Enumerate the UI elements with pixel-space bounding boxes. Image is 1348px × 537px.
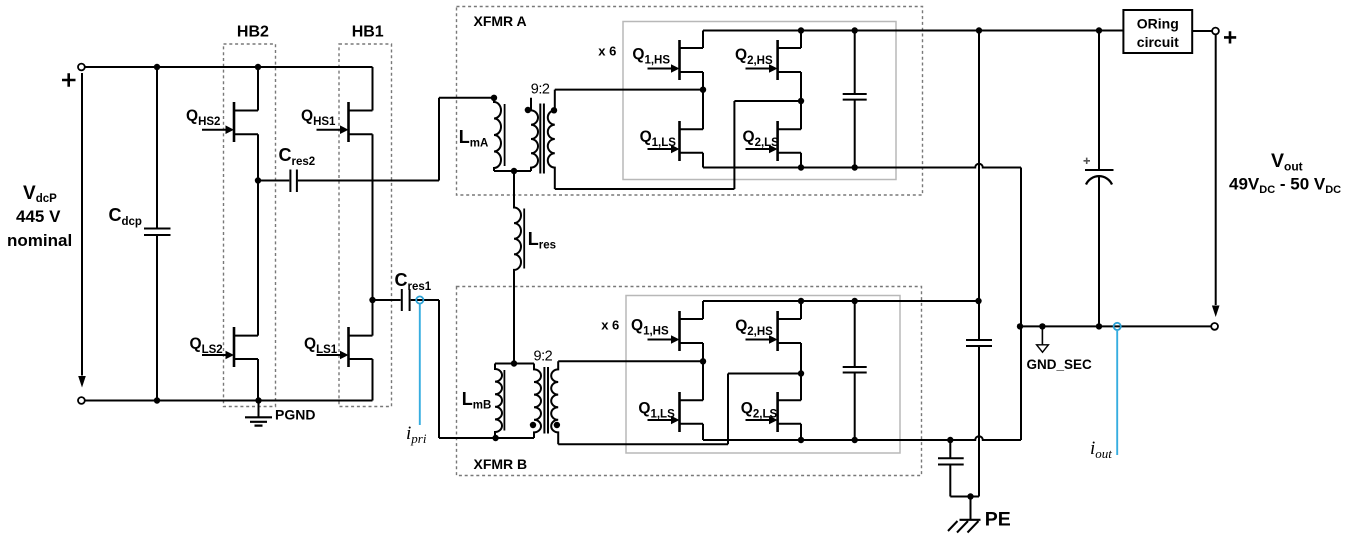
- capacitor XFMR B output: [843, 301, 867, 440]
- svg-text:GND_SEC: GND_SEC: [1027, 357, 1093, 372]
- node HB2 midpoint: [255, 177, 261, 183]
- transistor Q2,HS (XFMR A): [746, 40, 802, 80]
- current probe iout circle: [1114, 323, 1121, 330]
- transistor Q2,HS (XFMR B): [746, 311, 802, 351]
- wire Q2,HS drain (A): [800, 31, 802, 49]
- capacitor Cres2: [258, 170, 439, 193]
- wire Q2 midpoint (B): [800, 343, 802, 400]
- node Q2,LS source rail (B): [798, 437, 804, 443]
- wire XFMR B secondary top to Q1 midpoint: [558, 360, 703, 362]
- wire PE cap bottom link: [950, 496, 979, 498]
- svg-text:VdcP: VdcP: [23, 183, 57, 205]
- XFMR B secondary polarity dot: [554, 422, 560, 428]
- svg-text:9:2: 9:2: [531, 81, 550, 97]
- svg-text:49VDC - 50 VDC: 49VDC - 50 VDC: [1229, 175, 1341, 197]
- input voltage arrow line: [81, 73, 83, 376]
- wire HB1 midpoint: [372, 134, 374, 335]
- label plus input: [62, 73, 76, 87]
- wire ORing output: [1192, 30, 1212, 32]
- transistor QHS1: [317, 102, 373, 142]
- svg-text:445 V: 445 V: [16, 207, 61, 226]
- wire Q1,HS drain (A): [702, 31, 704, 49]
- node Q2,LS source rail (A): [798, 164, 804, 170]
- wire top input rail: [85, 66, 373, 68]
- wire Q1,LS source (A): [702, 153, 704, 168]
- node PE earth junction: [967, 493, 973, 499]
- XFMR B dashed box: [457, 287, 922, 476]
- wire XFMR B output return rail with crossover hop: [703, 436, 1021, 440]
- transistor Q1,HS (XFMR B): [648, 311, 704, 351]
- node HB1 midpoint: [369, 297, 375, 303]
- wire XFMR A secondary bottom to Q2 midpoint: [555, 101, 801, 189]
- svg-text:Cdcp: Cdcp: [109, 205, 142, 228]
- svg-text:ipri: ipri: [406, 423, 427, 446]
- svg-text:LmB: LmB: [462, 389, 492, 412]
- svg-text:Cres1: Cres1: [395, 270, 432, 293]
- ground PE earth symbol: [948, 497, 981, 533]
- svg-text:XFMR A: XFMR A: [474, 13, 527, 29]
- XFMR B inner paralleling box: [626, 296, 900, 454]
- transformer XFMR A secondary winding: [548, 90, 555, 189]
- node Q2,HS drain (A): [798, 27, 804, 33]
- ground GND_SEC arrow: [1037, 326, 1049, 352]
- svg-text:Q2,HS: Q2,HS: [735, 318, 773, 339]
- svg-text:QLS1: QLS1: [304, 336, 338, 357]
- wire Cres2 to XFMR A: [439, 98, 494, 181]
- svg-text:x 6: x 6: [601, 318, 619, 333]
- wire gnd bus vertical: [1020, 168, 1022, 441]
- svg-text:PE: PE: [985, 509, 1011, 531]
- wire Q1 midpoint (B): [702, 343, 704, 400]
- svg-text:Q1,HS: Q1,HS: [631, 317, 669, 338]
- svg-text:x 6: x 6: [598, 44, 616, 59]
- svg-text:LmA: LmA: [459, 127, 489, 150]
- node PGND junction: [255, 397, 261, 403]
- XFMR A primary polarity dot: [525, 107, 531, 113]
- output voltage arrowhead: [1212, 306, 1220, 318]
- node LmB top junction: [511, 360, 517, 366]
- node cap A bottom: [852, 164, 858, 170]
- wire Q2 midpoint (A): [800, 72, 802, 129]
- svg-text:HB2: HB2: [237, 23, 269, 40]
- node out cap top: [1096, 27, 1102, 33]
- terminal circle input bottom: [78, 397, 85, 404]
- input voltage arrowhead: [78, 376, 86, 388]
- svg-text:Q1,LS: Q1,LS: [640, 129, 677, 150]
- wire output ground rail: [1020, 325, 1211, 327]
- transistor QHS2: [202, 102, 258, 142]
- node gnd bus output rail: [1017, 323, 1023, 329]
- inductor LmA: [494, 98, 505, 171]
- node plus bus top rail: [976, 27, 982, 33]
- svg-text:Q2,LS: Q2,LS: [743, 129, 780, 150]
- svg-text:XFMR B: XFMR B: [474, 456, 528, 472]
- node PE cap top: [947, 437, 953, 443]
- XFMR A dashed box: [457, 7, 923, 196]
- svg-text:9:2: 9:2: [534, 348, 553, 364]
- capacitor Cres1: [373, 289, 440, 311]
- XFMR B primary polarity dot: [530, 422, 536, 428]
- XFMR A core: [540, 104, 544, 174]
- node Lres tap: [511, 168, 517, 174]
- node Cdcp bottom: [154, 397, 160, 403]
- ground PGND: [245, 401, 272, 426]
- current probe ipri line: [419, 304, 421, 425]
- wire Q1,HS drain (B): [702, 301, 704, 319]
- label plus out cap: [1084, 158, 1091, 164]
- wire XFMR B secondary bottom to Q2 midpoint: [558, 374, 801, 445]
- node cap A top: [852, 27, 858, 33]
- transistor Q2,LS (XFMR A): [746, 121, 802, 161]
- transistor QLS1: [317, 327, 373, 367]
- capacitor output electrolytic: [1085, 31, 1114, 327]
- wire Q1,LS source (B): [702, 424, 704, 440]
- terminal circle output plus: [1212, 28, 1219, 35]
- wire LmB top: [495, 363, 534, 365]
- XFMR B core: [544, 367, 548, 434]
- node plus bus XFMR B rail: [975, 298, 981, 304]
- inductor Lres: [514, 171, 524, 364]
- wire LmB bottom: [495, 437, 534, 439]
- wire XFMR A primary bottom: [494, 170, 531, 172]
- transistor Q1,LS (XFMR A): [648, 121, 704, 161]
- label plus output: [1224, 31, 1236, 43]
- svg-text:QHS1: QHS1: [301, 108, 336, 129]
- svg-text:Q1,HS: Q1,HS: [632, 46, 670, 67]
- wire plus bus vertical: [978, 31, 980, 341]
- wire XFMR A secondary top to Q1 midpoint: [555, 89, 703, 91]
- node Q1 midpoint (A): [700, 87, 706, 93]
- terminal circle output minus: [1211, 323, 1218, 330]
- node QHS2 drain rail: [255, 64, 261, 70]
- XFMR A secondary polarity dot: [551, 107, 557, 113]
- capacitor Cdcp: [144, 67, 171, 401]
- wire Q2,HS drain (B): [800, 301, 802, 319]
- transistor Q2,LS (XFMR B): [746, 392, 802, 432]
- wire QHS2 drain: [257, 67, 259, 111]
- output voltage arrow line: [1215, 35, 1217, 305]
- transformer XFMR B primary winding: [534, 364, 541, 439]
- node Q2 midpoint (B): [798, 370, 804, 376]
- wire QLS1 source: [372, 359, 374, 401]
- node LmA top: [491, 95, 497, 101]
- node Q2 midpoint (A): [798, 98, 804, 104]
- svg-text:Lres: Lres: [528, 229, 556, 252]
- wire HB2 midpoint: [257, 134, 259, 335]
- capacitor PE filter: [938, 440, 964, 497]
- transformer XFMR B secondary winding: [551, 361, 558, 444]
- wire QHS1 drain: [372, 67, 374, 111]
- wire Q2,LS source (A): [800, 153, 802, 168]
- wire Q2,LS source (B): [800, 424, 802, 440]
- wire Cres1 to XFMR B: [439, 300, 495, 438]
- transistor Q1,HS (XFMR A): [648, 40, 704, 80]
- node Q1 midpoint (B): [700, 358, 706, 364]
- transformer XFMR A primary winding: [531, 98, 538, 171]
- svg-text:ORing: ORing: [1137, 16, 1179, 32]
- current probe iout line: [1116, 330, 1118, 455]
- wire Q1 midpoint (A): [702, 72, 704, 129]
- ORing circuit box: [1123, 10, 1192, 53]
- svg-text:Vout: Vout: [1271, 150, 1303, 174]
- node out cap bottom: [1096, 323, 1102, 329]
- wire XFMR A output return rail with crossover hop: [703, 164, 1021, 168]
- svg-text:iout: iout: [1090, 438, 1112, 461]
- inductor LmB: [495, 364, 504, 439]
- wire bottom input rail: [85, 400, 373, 402]
- node Cdcp top: [154, 64, 160, 70]
- node Q2,HS drain (B): [798, 298, 804, 304]
- svg-text:HB1: HB1: [352, 23, 384, 40]
- wire XFMR A output + rail: [703, 30, 1123, 32]
- XFMR A inner paralleling box: [623, 22, 896, 180]
- capacitor Y to PE: [966, 340, 992, 497]
- node cap B bottom: [852, 437, 858, 443]
- svg-text:Q2,LS: Q2,LS: [741, 400, 778, 421]
- node GND_SEC tap: [1039, 323, 1045, 329]
- terminal circle input top: [78, 64, 85, 71]
- svg-text:circuit: circuit: [1137, 34, 1179, 50]
- svg-text:nominal: nominal: [7, 231, 72, 250]
- svg-text:Q1,LS: Q1,LS: [638, 400, 675, 421]
- transistor Q1,LS (XFMR B): [648, 392, 704, 432]
- node cap B top: [852, 298, 858, 304]
- wire QLS2 source: [257, 359, 259, 401]
- svg-text:Cres2: Cres2: [279, 145, 316, 168]
- svg-text:PGND: PGND: [275, 407, 315, 423]
- svg-text:QHS2: QHS2: [186, 108, 220, 129]
- current probe ipri circle: [416, 296, 423, 303]
- transistor QLS2: [202, 327, 258, 367]
- svg-text:QLS2: QLS2: [190, 336, 223, 357]
- capacitor XFMR A output: [843, 31, 867, 168]
- svg-text:Q2,HS: Q2,HS: [735, 47, 773, 68]
- HB2 dashed box: [224, 44, 276, 407]
- node LmB bottom junction: [492, 435, 498, 441]
- HB1 dashed box: [339, 44, 392, 407]
- wire XFMR B output + rail: [703, 300, 979, 302]
